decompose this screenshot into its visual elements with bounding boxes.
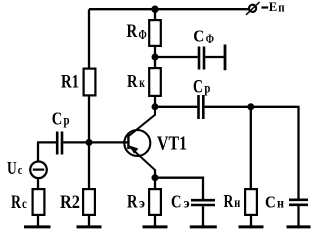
svg-text:с: с xyxy=(22,197,27,212)
svg-text:C: C xyxy=(52,109,63,129)
svg-text:R: R xyxy=(224,191,235,211)
node base xyxy=(86,139,93,146)
svg-text:э: э xyxy=(139,197,145,212)
wire input left segment xyxy=(37,141,56,143)
wire Rк bottom to collector node xyxy=(154,97,156,107)
svg-text:C: C xyxy=(193,27,204,46)
ground at Rc xyxy=(24,216,51,227)
svg-text:с: с xyxy=(18,162,23,177)
wire Uc to Rc xyxy=(37,179,39,188)
resistor R1 xyxy=(61,69,95,96)
svg-text:н: н xyxy=(277,197,284,212)
svg-text:R: R xyxy=(127,71,138,91)
capacitor Cэ xyxy=(171,192,215,212)
resistor Rк xyxy=(127,68,161,96)
wire base node down to R2 xyxy=(88,142,90,188)
svg-text:R: R xyxy=(127,21,138,42)
wire output corner down to Cн xyxy=(297,106,299,199)
ground at Cф xyxy=(224,45,227,71)
wire top supply rail xyxy=(89,8,249,10)
node filter node xyxy=(152,54,159,61)
svg-text:э: э xyxy=(184,197,190,212)
svg-text:н: н xyxy=(234,196,240,211)
svg-text:R: R xyxy=(127,193,138,213)
ground at R2 xyxy=(77,216,102,227)
svg-text:C: C xyxy=(193,77,203,98)
node output xyxy=(247,103,254,110)
resistor Rc xyxy=(11,189,44,215)
resistor Rн xyxy=(224,189,257,215)
svg-text:п: п xyxy=(278,0,285,15)
ground at Rн xyxy=(239,216,264,227)
node emitter xyxy=(152,174,159,181)
source Uc xyxy=(7,142,47,178)
svg-text:R2: R2 xyxy=(60,192,80,213)
transistor VT1 xyxy=(124,107,187,170)
resistor R2 xyxy=(60,189,95,215)
capacitor Cн xyxy=(265,193,308,212)
ground at Cн xyxy=(287,206,311,227)
wire output node down to Rн xyxy=(250,107,252,188)
svg-text:Ф: Ф xyxy=(206,32,214,46)
resistor Rф xyxy=(127,9,161,46)
terminal -Eп xyxy=(246,0,285,15)
svg-text:C: C xyxy=(171,192,182,212)
wire filter node to Cф xyxy=(155,56,198,58)
resistor Rэ xyxy=(127,189,161,215)
ground at Cэ xyxy=(190,206,217,227)
wire Cр output to output corner xyxy=(205,106,299,108)
wire R1 top lead xyxy=(88,9,90,68)
capacitor Cф xyxy=(193,27,224,70)
svg-text:р: р xyxy=(64,114,70,129)
svg-text:VT1: VT1 xyxy=(157,134,187,155)
wire Cр input to base node to transistor base xyxy=(63,141,127,143)
ground at Rэ xyxy=(143,216,168,227)
svg-text:R: R xyxy=(11,192,21,213)
svg-text:E: E xyxy=(269,0,278,14)
wire emitter down to Rэ xyxy=(154,170,156,189)
node collector xyxy=(152,103,159,110)
wire R1 bottom to base node xyxy=(88,97,90,143)
svg-text:к: к xyxy=(139,76,145,91)
capacitor Cр output xyxy=(193,77,211,120)
wire Rф bottom to Rк top xyxy=(154,47,156,67)
wire emitter node to Cэ xyxy=(155,178,203,200)
svg-text:р: р xyxy=(204,82,210,97)
capacitor Cр input label xyxy=(52,109,70,129)
svg-text:U: U xyxy=(7,158,17,178)
svg-text:R1: R1 xyxy=(61,72,79,93)
capacitor Cр input plates xyxy=(57,132,62,155)
svg-text:C: C xyxy=(265,193,276,212)
svg-text:Ф: Ф xyxy=(139,27,147,42)
node junction on rail xyxy=(151,6,158,13)
wire collector node to Cр output xyxy=(155,106,197,108)
